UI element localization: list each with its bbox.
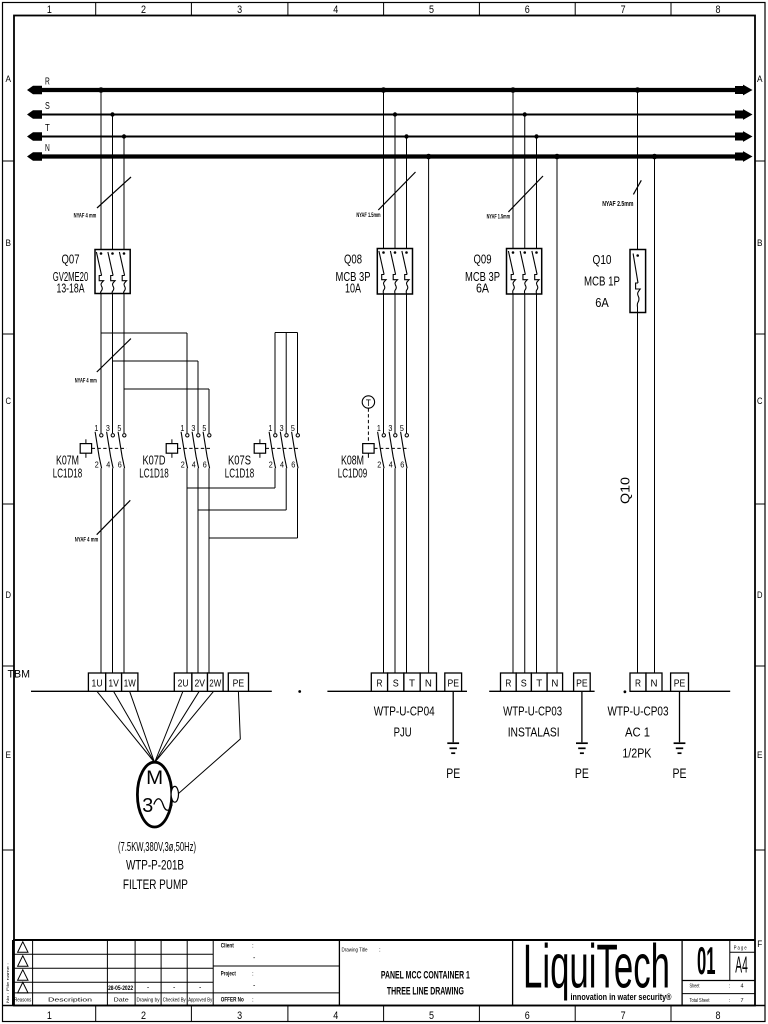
svg-text:Q07: Q07	[62, 252, 80, 267]
svg-text:Drawing Title: Drawing Title	[342, 948, 368, 954]
svg-text:K07M: K07M	[56, 454, 79, 468]
svg-text:Date: Date	[114, 998, 129, 1004]
svg-text:3: 3	[388, 424, 392, 433]
svg-text:Total Sheet: Total Sheet	[690, 998, 710, 1004]
svg-text:2: 2	[141, 1010, 146, 1022]
svg-text:THREE LINE DRAWING: THREE LINE DRAWING	[387, 986, 464, 998]
svg-text:Q09: Q09	[474, 252, 492, 267]
svg-text:2: 2	[95, 461, 99, 470]
svg-text:2: 2	[181, 461, 185, 470]
svg-text:LC1D18: LC1D18	[225, 467, 255, 481]
svg-text:PE: PE	[673, 766, 687, 781]
svg-text:8: 8	[716, 1010, 721, 1022]
svg-text:T: T	[45, 123, 50, 134]
svg-text:1: 1	[47, 1010, 52, 1022]
svg-text:A4: A4	[735, 951, 748, 977]
svg-text:WTP-U-CP03: WTP-U-CP03	[503, 704, 562, 719]
svg-text:6: 6	[400, 461, 404, 470]
svg-text:NYAF 4 mm: NYAF 4 mm	[75, 538, 99, 544]
svg-text:PE: PE	[674, 679, 686, 690]
svg-text:3: 3	[237, 1010, 242, 1022]
svg-text:1/2PK: 1/2PK	[622, 746, 651, 761]
svg-text:B: B	[757, 238, 763, 248]
svg-text:LC1D18: LC1D18	[139, 467, 169, 481]
svg-text:Description: Description	[48, 998, 92, 1004]
svg-text:7: 7	[621, 1010, 626, 1022]
svg-text:4: 4	[333, 1010, 338, 1022]
svg-text:F: F	[757, 939, 762, 949]
svg-text:S: S	[521, 679, 527, 690]
svg-text:5: 5	[429, 1010, 434, 1022]
svg-text:2: 2	[141, 4, 146, 16]
svg-text:TBM: TBM	[8, 669, 31, 681]
svg-text:R: R	[635, 679, 641, 690]
svg-text:M: M	[146, 768, 163, 789]
svg-text:N: N	[425, 679, 432, 690]
svg-text:PE: PE	[446, 766, 460, 781]
svg-text:WTP-U-CP04: WTP-U-CP04	[374, 704, 435, 719]
svg-text:5: 5	[202, 424, 206, 433]
svg-text:D: D	[757, 590, 763, 600]
svg-text:4: 4	[741, 983, 744, 989]
svg-text:10A: 10A	[345, 281, 361, 296]
svg-text:C: C	[757, 396, 763, 406]
svg-text:NYAF 1.5mm: NYAF 1.5mm	[487, 215, 510, 221]
svg-text:1U: 1U	[92, 679, 103, 690]
svg-text:2W: 2W	[209, 679, 221, 690]
svg-text:2: 2	[269, 461, 273, 470]
svg-text:OFFER No: OFFER No	[221, 998, 244, 1004]
svg-text:6: 6	[525, 1010, 530, 1022]
svg-text:A: A	[6, 74, 12, 84]
svg-text:4: 4	[280, 461, 284, 470]
svg-text:5: 5	[429, 4, 434, 16]
svg-text:(7.5KW,380V,3ø,50Hz): (7.5KW,380V,3ø,50Hz)	[118, 839, 196, 854]
svg-text:T: T	[366, 398, 371, 408]
svg-text:3: 3	[142, 795, 153, 817]
svg-text:6: 6	[118, 461, 122, 470]
svg-text:R: R	[376, 679, 382, 690]
svg-text:5: 5	[291, 424, 295, 433]
svg-text:2U: 2U	[178, 679, 189, 690]
svg-text:6A: 6A	[476, 281, 489, 296]
svg-text:1: 1	[268, 424, 272, 433]
svg-text:R: R	[45, 77, 50, 88]
svg-text:7: 7	[741, 998, 744, 1004]
svg-text:WTP-U-CP03: WTP-U-CP03	[608, 704, 669, 719]
svg-text:N: N	[551, 679, 558, 690]
svg-text:D: D	[6, 590, 12, 600]
svg-text:INSTALASI: INSTALASI	[508, 725, 560, 740]
svg-text:Project: Project	[221, 972, 236, 978]
svg-text:2V: 2V	[194, 679, 205, 690]
svg-text:5: 5	[400, 424, 404, 433]
svg-text:LC1D18: LC1D18	[53, 467, 83, 481]
svg-text:3: 3	[106, 424, 110, 433]
svg-text:Approved By: Approved By	[188, 998, 212, 1004]
svg-text:No : File name :: No : File name :	[5, 963, 10, 1003]
svg-text:innovation in water security®: innovation in water security®	[571, 992, 672, 1003]
svg-text:4: 4	[106, 461, 110, 470]
svg-text:NYAF 4 mm: NYAF 4 mm	[74, 213, 97, 219]
svg-text:Q10: Q10	[593, 252, 612, 267]
svg-text:T: T	[409, 679, 415, 690]
svg-text:28-05-2022: 28-05-2022	[108, 986, 134, 992]
svg-text:A: A	[757, 74, 763, 84]
svg-text:4: 4	[192, 461, 196, 470]
svg-text:4: 4	[333, 4, 338, 16]
svg-text:3: 3	[280, 424, 284, 433]
svg-text:WTP-P-201B: WTP-P-201B	[126, 857, 184, 873]
svg-text:1: 1	[377, 424, 381, 433]
svg-text:13-18A: 13-18A	[57, 281, 85, 296]
svg-text:AC 1: AC 1	[625, 725, 650, 740]
svg-text:01: 01	[697, 940, 716, 983]
svg-text:S: S	[393, 679, 399, 690]
svg-text:NYAF 2.5mm: NYAF 2.5mm	[602, 201, 633, 208]
svg-text:R: R	[505, 679, 511, 690]
svg-text:Sheet: Sheet	[690, 983, 700, 989]
svg-text:PE: PE	[447, 679, 459, 690]
svg-text:PANEL MCC CONTAINER 1: PANEL MCC CONTAINER 1	[381, 970, 470, 982]
svg-text:PJU: PJU	[394, 725, 412, 740]
svg-text:NYAF 4 mm: NYAF 4 mm	[75, 379, 97, 385]
svg-text:1W: 1W	[124, 679, 136, 690]
svg-text:NYAF 1.5mm: NYAF 1.5mm	[356, 213, 380, 219]
svg-text:1: 1	[47, 4, 52, 16]
svg-text:K08M: K08M	[341, 454, 364, 468]
svg-text:Q08: Q08	[344, 252, 362, 267]
svg-text:8: 8	[716, 4, 721, 16]
svg-text:Checked By: Checked By	[163, 998, 186, 1004]
svg-text:FILTER PUMP: FILTER PUMP	[123, 876, 188, 892]
svg-text:B: B	[6, 238, 12, 248]
svg-text:PE: PE	[576, 679, 588, 690]
svg-text:PE: PE	[575, 766, 589, 781]
svg-text:PE: PE	[233, 679, 245, 690]
svg-text:6: 6	[203, 461, 207, 470]
svg-text:E: E	[757, 750, 763, 760]
svg-text:MCB 1P: MCB 1P	[584, 274, 620, 289]
svg-text:Drawing by: Drawing by	[137, 998, 160, 1004]
svg-text:5: 5	[117, 424, 121, 433]
svg-text:K07D: K07D	[143, 454, 166, 468]
svg-text:N: N	[651, 679, 658, 690]
svg-text:6A: 6A	[595, 295, 609, 310]
svg-text:1V: 1V	[108, 679, 119, 690]
svg-text:3: 3	[237, 4, 242, 16]
svg-text:7: 7	[621, 4, 626, 16]
svg-text:C: C	[6, 396, 12, 406]
svg-text:E: E	[6, 750, 12, 760]
svg-text:4: 4	[389, 461, 393, 470]
svg-text:1: 1	[94, 424, 98, 433]
svg-text:2: 2	[377, 461, 381, 470]
svg-text:LC1D09: LC1D09	[338, 467, 368, 481]
svg-text:Client: Client	[221, 944, 234, 950]
svg-text:Reasons: Reasons	[14, 998, 31, 1004]
svg-text:6: 6	[525, 4, 530, 16]
svg-text:S: S	[45, 101, 50, 112]
svg-text:T: T	[536, 679, 542, 690]
svg-text:3: 3	[191, 424, 195, 433]
svg-text:6: 6	[291, 461, 295, 470]
svg-text:N: N	[45, 143, 50, 154]
svg-text:K07S: K07S	[228, 454, 251, 468]
svg-text:Q10: Q10	[618, 477, 633, 504]
svg-text:1: 1	[180, 424, 184, 433]
